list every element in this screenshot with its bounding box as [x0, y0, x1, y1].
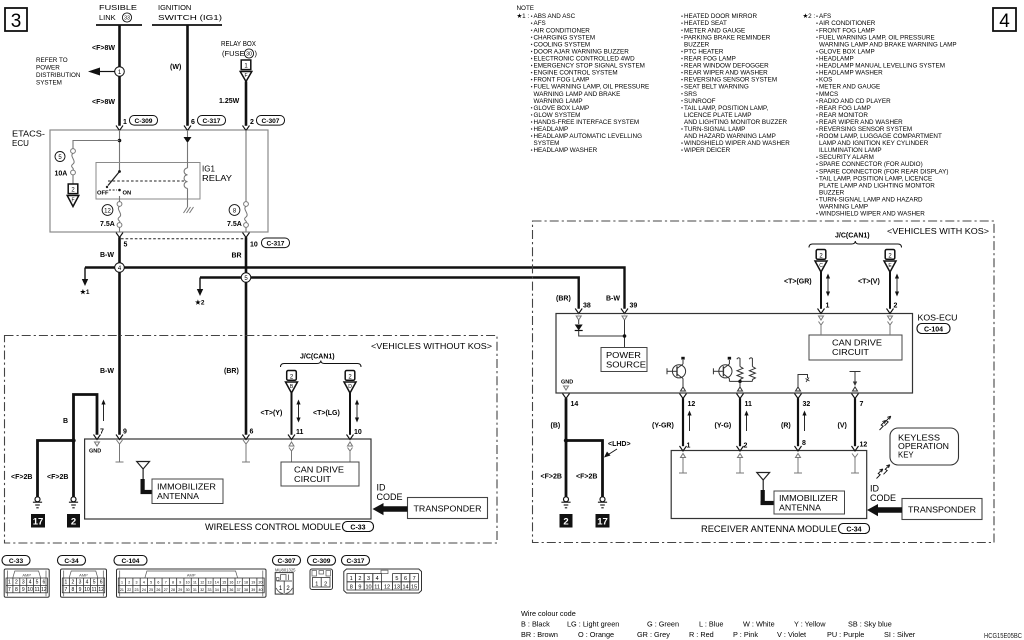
svg-text:WARNING LAMP: WARNING LAMP — [534, 98, 583, 105]
transponder box left — [408, 498, 488, 519]
pin 32 internal L symbol — [796, 375, 810, 392]
svg-text:MU801325: MU801325 — [275, 568, 296, 573]
ignition switch IG1 label — [152, 3, 223, 25]
pin 10 internal triangle and wire to CAN box — [348, 442, 353, 462]
svg-text:1: 1 — [64, 580, 67, 586]
CAN wire to pin 11 — [291, 393, 293, 435]
svg-text:CODE: CODE — [377, 492, 403, 502]
pin 1 internal triangle and wire — [819, 316, 824, 335]
ETACS-ECU box — [50, 130, 268, 232]
long wire node5 to KOS pin 38 — [200, 278, 579, 309]
svg-text:5: 5 — [395, 576, 398, 582]
note list column 1 — [531, 13, 649, 154]
pin chevron ETACS bottom pin 10 — [243, 233, 250, 238]
wire B from KOS pin 14 — [565, 398, 568, 497]
svg-text:33: 33 — [207, 588, 211, 592]
ground ref 17 black box kos — [596, 514, 610, 528]
svg-text:AMP: AMP — [187, 572, 196, 577]
svg-text:29: 29 — [178, 588, 182, 592]
svg-text:6: 6 — [43, 580, 46, 586]
svg-text:F: F — [71, 197, 74, 203]
connector pinout C-104 label — [114, 556, 147, 566]
svg-text:13: 13 — [207, 581, 211, 585]
svg-text:AIR CONDITIONER: AIR CONDITIONER — [819, 20, 876, 27]
connector pinout C-34 label — [58, 556, 86, 566]
svg-text:C-33: C-33 — [350, 525, 365, 532]
svg-text:2: 2 — [358, 576, 361, 582]
svg-text:HEADLAMP: HEADLAMP — [819, 56, 854, 63]
svg-text:4: 4 — [143, 581, 145, 585]
wire pin39 to power source — [624, 320, 626, 348]
svg-text:B-W: B-W — [100, 252, 114, 259]
svg-text:11: 11 — [296, 429, 304, 436]
svg-text:FUSIBLE: FUSIBLE — [99, 3, 137, 12]
connector pinout C-104 body — [117, 569, 267, 597]
svg-text:35: 35 — [222, 588, 226, 592]
wire Y-G pin11 to receiver pin2 — [739, 398, 741, 446]
svg-text:PU : Purple: PU : Purple — [827, 630, 864, 639]
svg-text:2: 2 — [744, 443, 748, 450]
svg-text:1.25W: 1.25W — [219, 98, 240, 105]
svg-text:AIR CONDITIONER: AIR CONDITIONER — [534, 27, 591, 34]
CAN drive circuit box right — [809, 335, 902, 360]
pin chevron KOS bottom 11 — [737, 394, 744, 399]
wire branch to fuse 5 — [73, 141, 120, 149]
svg-text:10: 10 — [27, 587, 33, 593]
ID code big arrow left — [373, 503, 408, 515]
svg-text:AFS: AFS — [534, 20, 546, 27]
svg-text:12: 12 — [98, 587, 104, 593]
ground ref 2 black box — [67, 514, 80, 528]
svg-text:2: 2 — [71, 188, 75, 194]
svg-text:BUZZER: BUZZER — [819, 189, 845, 196]
wire V pin7 to receiver pin12 — [854, 398, 856, 446]
CAN wire to KOS pin 2 — [889, 272, 891, 309]
KOS-ECU box — [556, 314, 913, 394]
svg-text:C-317: C-317 — [347, 558, 365, 565]
ground ref 2 black box kos — [560, 514, 573, 528]
relay box (fuse 30) label — [221, 39, 258, 58]
svg-text:★2 :: ★2 : — [803, 13, 816, 20]
up arrow beside Y-GR wire — [687, 411, 691, 432]
ID code big arrow right — [867, 504, 902, 516]
chassis ground hatch — [184, 207, 194, 213]
svg-text:5: 5 — [150, 581, 152, 585]
svg-text:6: 6 — [191, 119, 195, 126]
wire BR from ETACS pin10 down to module pin 6 — [245, 237, 248, 434]
junction dot pin1 branch — [118, 139, 122, 143]
svg-text:KEY: KEY — [898, 451, 914, 460]
svg-text:4: 4 — [29, 580, 32, 586]
svg-text:IMMOBILIZER: IMMOBILIZER — [779, 494, 838, 503]
circled 8 — [229, 205, 240, 216]
up arrow beside Y-G wire — [744, 411, 748, 432]
node 4 circle — [115, 263, 125, 273]
svg-text:(W): (W) — [170, 64, 181, 71]
pin chevron at ETACS pin 6 — [184, 126, 191, 131]
svg-text:GR : Grey: GR : Grey — [637, 630, 670, 639]
svg-text:36: 36 — [229, 588, 233, 592]
wire diode to junction — [579, 331, 625, 337]
svg-text:ETACS-: ETACS- — [12, 130, 45, 139]
node 1 circle on fusible wire — [115, 67, 125, 77]
pin chevron module pin 11 — [288, 435, 295, 440]
circled 5 — [55, 152, 65, 162]
double arrow beside KOS pin2 wire — [895, 274, 899, 297]
svg-text:(BR): (BR) — [224, 368, 239, 375]
receiver antenna module label — [701, 524, 870, 535]
junction dot on B wire — [71, 438, 75, 442]
pin 6 internal stub — [242, 440, 250, 462]
connector label 2 C-307 — [250, 116, 285, 127]
ground ref 17 black box — [31, 514, 45, 528]
svg-text:O : Orange: O : Orange — [578, 630, 614, 639]
svg-text:17: 17 — [597, 517, 608, 528]
IG1 relay box — [96, 163, 200, 200]
pin chevron KOS bottom 7 — [852, 394, 859, 399]
svg-text:HEADLAMP WASHER: HEADLAMP WASHER — [819, 70, 883, 77]
svg-text:NOTE: NOTE — [517, 5, 535, 12]
fusible link 33 label — [96, 3, 142, 25]
connector label 6 C-317 — [191, 116, 226, 127]
svg-text:POWER: POWER — [606, 351, 641, 360]
svg-text:C: C — [819, 263, 823, 269]
svg-text:(V): (V) — [838, 423, 847, 430]
wire coil to chassis ground — [187, 188, 189, 207]
svg-text:8: 8 — [172, 581, 174, 585]
svg-text:(BR): (BR) — [556, 296, 571, 303]
svg-text:ENGINE CONTROL SYSTEM: ENGINE CONTROL SYSTEM — [534, 70, 618, 77]
immobilizer antenna box left — [152, 479, 223, 504]
svg-text:RELAY: RELAY — [202, 174, 233, 183]
svg-text:38: 38 — [244, 588, 248, 592]
pin chevron KOS bottom 14 — [563, 394, 570, 399]
vehicles with KOS dash-dot box — [533, 221, 995, 543]
svg-text:SWITCH (IG1): SWITCH (IG1) — [158, 13, 223, 22]
fuse 12 symbol — [117, 196, 122, 232]
long wire node4 to KOS pin 39 — [85, 268, 625, 309]
wire R pin32 to receiver pin8 — [797, 398, 799, 446]
svg-text:9: 9 — [123, 429, 127, 436]
pin chevron KOS bottom 12 — [680, 394, 687, 399]
wire relay box vertical — [245, 82, 248, 126]
svg-text:10: 10 — [365, 584, 371, 590]
sheet ref symbol 2F ground — [67, 184, 79, 207]
relay switch arm — [106, 170, 121, 188]
GND pin triangle KOS — [561, 380, 573, 391]
svg-text:26: 26 — [156, 588, 160, 592]
svg-text:11: 11 — [193, 581, 197, 585]
svg-text:TRANSPONDER: TRANSPONDER — [414, 504, 482, 514]
relay coil — [184, 168, 187, 188]
svg-text:37: 37 — [237, 588, 241, 592]
svg-text:R : Red: R : Red — [689, 630, 714, 639]
IG1 relay label — [202, 165, 233, 184]
connector pinout C-317 label — [342, 556, 370, 566]
pin chevron module pin 7 — [94, 435, 101, 440]
svg-text:1: 1 — [121, 581, 123, 585]
wire inside ETACS from pin1 down to switch — [119, 130, 121, 172]
svg-text:6: 6 — [100, 580, 103, 586]
svg-text:B-W: B-W — [606, 296, 620, 303]
pin chevron receiver pin 2 — [737, 446, 744, 451]
svg-text:J/C(CAN1): J/C(CAN1) — [835, 233, 870, 240]
radio wave arrows upper — [880, 416, 891, 430]
svg-text:PARKING BRAKE REMINDER: PARKING BRAKE REMINDER — [684, 34, 771, 41]
svg-text:16: 16 — [229, 581, 233, 585]
svg-text:39: 39 — [630, 303, 638, 310]
svg-text:HEADLAMP WASHER: HEADLAMP WASHER — [534, 147, 598, 154]
pin chevron receiver pin 12 — [852, 446, 859, 451]
pin chevron KOS pin 38 — [575, 309, 582, 314]
svg-text:7: 7 — [8, 587, 11, 593]
svg-text:CIRCUIT: CIRCUIT — [294, 474, 331, 484]
pin chevron module pin 10 — [347, 435, 354, 440]
note list column 3 — [816, 13, 956, 217]
ground symbol right — [69, 497, 78, 508]
svg-text:(Y-GR): (Y-GR) — [652, 423, 674, 430]
dashed tie line between pins 5 and 10 — [121, 238, 244, 240]
svg-text:(R): (R) — [781, 423, 791, 430]
svg-text:V : Violet: V : Violet — [777, 630, 806, 639]
svg-text:10: 10 — [250, 242, 258, 249]
svg-text:9: 9 — [22, 587, 25, 593]
svg-text:REAR WIPER AND WASHER: REAR WIPER AND WASHER — [819, 119, 903, 126]
svg-text:AND LIGHTING MONITOR BUZZER: AND LIGHTING MONITOR BUZZER — [684, 119, 788, 126]
svg-text:REVERSING SENSOR SYSTEM: REVERSING SENSOR SYSTEM — [684, 77, 777, 84]
svg-text:ID: ID — [870, 484, 880, 494]
svg-text:24: 24 — [142, 588, 146, 592]
svg-text:6: 6 — [157, 581, 159, 585]
svg-text:25: 25 — [149, 588, 153, 592]
svg-text:COOLING SYSTEM: COOLING SYSTEM — [534, 41, 591, 48]
radio wave arrows lower — [877, 465, 890, 479]
svg-text:28: 28 — [171, 588, 175, 592]
transistor Q2 — [713, 357, 732, 382]
svg-text:1: 1 — [8, 580, 11, 586]
fuse 5 symbol — [71, 149, 76, 184]
svg-text:12: 12 — [104, 208, 111, 214]
svg-text:20: 20 — [259, 581, 263, 585]
svg-text:17: 17 — [33, 517, 44, 528]
wireless control module label — [205, 522, 374, 533]
svg-text:<F>8W: <F>8W — [92, 45, 115, 52]
svg-text:REAR FOG LAMP: REAR FOG LAMP — [819, 105, 871, 112]
connector pinout C-33 label — [2, 556, 30, 566]
svg-text:ILLUMINATION LAMP: ILLUMINATION LAMP — [819, 147, 882, 154]
svg-text:IMMOBILIZER: IMMOBILIZER — [157, 483, 216, 492]
ID CODE label left — [377, 483, 403, 503]
pin 7 internal T symbol — [850, 372, 861, 392]
connector pinout C-33 body — [4, 569, 49, 597]
pin 11 internal triangle and wire to CAN box — [289, 442, 294, 462]
svg-text:10A: 10A — [55, 171, 68, 178]
svg-text:15: 15 — [411, 584, 417, 590]
immobilizer antenna symbol left — [137, 462, 152, 495]
svg-text:TAIL LAMP, POSITION LAMP, LICE: TAIL LAMP, POSITION LAMP, LICENCE — [819, 175, 932, 182]
svg-text:(Y-G): (Y-G) — [715, 423, 732, 430]
svg-text:J/C(CAN1): J/C(CAN1) — [300, 354, 335, 361]
svg-text:8: 8 — [350, 584, 353, 590]
svg-text:WINDSHIELD WIPER AND WASHER: WINDSHIELD WIPER AND WASHER — [819, 211, 925, 218]
relay switch OFF ON labels and contacts — [97, 189, 131, 197]
KOS-ECU label — [917, 314, 958, 334]
svg-text:FRONT FOG LAMP: FRONT FOG LAMP — [534, 77, 590, 84]
wire ignition switch vertical — [186, 25, 189, 126]
svg-text:5: 5 — [58, 155, 62, 161]
svg-text:1: 1 — [279, 586, 283, 592]
svg-text:FRONT FOG LAMP: FRONT FOG LAMP — [819, 27, 875, 34]
note list column 2 — [681, 13, 790, 154]
svg-text:HEADLAMP MANUAL LEVELLING SYST: HEADLAMP MANUAL LEVELLING SYSTEM — [819, 63, 945, 70]
svg-text:TRANSPONDER: TRANSPONDER — [908, 505, 976, 515]
svg-text:2: 2 — [324, 581, 327, 587]
svg-text:F: F — [244, 73, 247, 79]
svg-text:2: 2 — [15, 580, 18, 586]
svg-text:3: 3 — [136, 581, 138, 585]
svg-text:<VEHICLES WITH KOS>: <VEHICLES WITH KOS> — [887, 227, 989, 236]
ground symbol kos left — [561, 497, 570, 508]
pin chevron KOS pin 39 — [621, 309, 628, 314]
svg-text:IGNITION: IGNITION — [158, 3, 191, 12]
wire pin6 to coil — [187, 143, 189, 168]
svg-text:2: 2 — [290, 374, 294, 380]
resistor R1 — [737, 358, 743, 382]
svg-text:7: 7 — [413, 576, 416, 582]
svg-text:HEATED DOOR MIRROR: HEATED DOOR MIRROR — [684, 13, 757, 20]
svg-text:<F>2B: <F>2B — [541, 474, 562, 481]
svg-text:C-309: C-309 — [313, 558, 331, 565]
svg-text:C-309: C-309 — [135, 118, 153, 125]
transistor Q1 — [667, 357, 686, 391]
svg-text:LINK: LINK — [99, 13, 116, 22]
star2 branch arrow — [195, 278, 205, 307]
svg-text:ELECTRONIC CONTROLLED 4WD: ELECTRONIC CONTROLLED 4WD — [534, 56, 636, 63]
svg-text:31: 31 — [193, 588, 197, 592]
svg-text:TAIL LAMP, POSITION LAMP,: TAIL LAMP, POSITION LAMP, — [684, 105, 768, 112]
svg-text:(FUSE: (FUSE — [222, 49, 245, 58]
svg-text:FUEL WARNING LAMP, OIL PRESSUR: FUEL WARNING LAMP, OIL PRESSURE — [534, 84, 650, 91]
svg-text:PTC HEATER: PTC HEATER — [684, 49, 724, 56]
wire B from pin 7 up and left to grounds — [74, 395, 98, 497]
CAN drive circuit box left — [281, 462, 359, 486]
svg-text:WARNING LAMP AND BRAKE WARNING: WARNING LAMP AND BRAKE WARNING LAMP — [819, 41, 957, 48]
svg-text:LICENCE PLATE LAMP: LICENCE PLATE LAMP — [684, 112, 751, 119]
fuse 8 symbol — [244, 202, 249, 232]
sheet ref 2D junction left CAN — [344, 371, 356, 394]
svg-text:39: 39 — [251, 588, 255, 592]
svg-text:LAMP AND IGNITION KEY CYLINDER: LAMP AND IGNITION KEY CYLINDER — [819, 140, 929, 147]
pin chevron KOS pin 2 — [887, 309, 894, 314]
svg-text:1: 1 — [350, 576, 353, 582]
svg-text:KOS: KOS — [819, 77, 832, 84]
svg-text:W : White: W : White — [743, 620, 775, 629]
svg-text:19: 19 — [251, 581, 255, 585]
svg-text:FUEL WARNING LAMP, OIL PRESSUR: FUEL WARNING LAMP, OIL PRESSURE — [819, 34, 935, 41]
svg-text:21: 21 — [120, 588, 124, 592]
svg-text:HEADLAMP: HEADLAMP — [534, 126, 569, 133]
svg-text:CHARGING SYSTEM: CHARGING SYSTEM — [534, 34, 596, 41]
ground symbol left — [33, 497, 42, 508]
svg-text:REFER TO: REFER TO — [36, 57, 68, 64]
svg-text:ID: ID — [377, 483, 387, 493]
svg-text:WIRELESS CONTROL MODULE: WIRELESS CONTROL MODULE — [205, 522, 341, 532]
svg-text:30: 30 — [186, 588, 190, 592]
svg-text:DISTRIBUTION: DISTRIBUTION — [36, 72, 81, 79]
pin chevron KOS bottom 32 — [795, 394, 802, 399]
pin label 10 C-317 — [250, 238, 290, 249]
double arrow beside pin11 wire — [296, 400, 300, 423]
sheet ref 2E junction right CAN — [884, 250, 896, 273]
svg-text:BR: BR — [232, 253, 242, 260]
svg-text:LG : Light green: LG : Light green — [567, 620, 619, 629]
svg-text:7: 7 — [100, 429, 104, 436]
svg-text:12: 12 — [200, 581, 204, 585]
svg-text:5: 5 — [93, 580, 96, 586]
svg-text:32: 32 — [200, 588, 204, 592]
svg-text:OFF: OFF — [97, 191, 109, 197]
svg-text:TURN-SIGNAL LAMP AND HAZARD: TURN-SIGNAL LAMP AND HAZARD — [819, 197, 923, 204]
svg-text:C-104: C-104 — [924, 327, 943, 334]
svg-text:D: D — [348, 384, 352, 390]
svg-text:SPARE CONNECTOR (FOR AUDIO): SPARE CONNECTOR (FOR AUDIO) — [819, 161, 923, 168]
svg-text:8: 8 — [15, 587, 18, 593]
svg-text:30: 30 — [246, 52, 252, 58]
svg-text:3: 3 — [11, 11, 22, 32]
svg-text:14: 14 — [215, 581, 219, 585]
pin chevron module pin 9 — [116, 435, 123, 440]
svg-text:ECU: ECU — [12, 139, 29, 148]
ID CODE label right — [870, 484, 896, 504]
wire pin2 inside ETACS — [245, 130, 247, 202]
svg-text:2: 2 — [563, 517, 568, 528]
svg-text:B-W: B-W — [100, 368, 114, 375]
svg-text:GLOVE BOX LAMP: GLOVE BOX LAMP — [534, 105, 590, 112]
svg-text:C-317: C-317 — [267, 241, 285, 248]
immobilizer antenna symbol right — [757, 473, 774, 506]
wire B branch to left ground — [38, 441, 74, 497]
svg-text:SYSTEM: SYSTEM — [534, 140, 560, 147]
svg-text:27: 27 — [164, 588, 168, 592]
svg-text:PLATE LAMP AND LIGHTING MONITO: PLATE LAMP AND LIGHTING MONITOR — [819, 182, 935, 189]
GND pin triangle inside module — [89, 442, 101, 455]
svg-text:B: B — [63, 418, 68, 425]
svg-text:WARNING LAMP: WARNING LAMP — [819, 204, 868, 211]
svg-text:REAR MONITOR: REAR MONITOR — [819, 112, 868, 119]
pin 8 internal stub receiver — [794, 454, 802, 474]
svg-text:2: 2 — [71, 517, 76, 528]
svg-text:10: 10 — [186, 581, 190, 585]
sheet ref 2C junction right CAN — [815, 250, 827, 273]
up arrow beside R wire — [802, 411, 806, 432]
pin 12 internal stub receiver — [851, 454, 859, 474]
connector pinout C-309 label — [308, 556, 336, 566]
pin chevron receiver pin 1 — [680, 446, 687, 451]
svg-text:3: 3 — [367, 576, 370, 582]
svg-text:AND HAZARD WARNING LAMP: AND HAZARD WARNING LAMP — [684, 133, 776, 140]
svg-text:★1: ★1 — [80, 288, 90, 296]
svg-text:CIRCUIT: CIRCUIT — [832, 347, 869, 357]
svg-text:BUZZER: BUZZER — [684, 41, 710, 48]
svg-text:<LHD>: <LHD> — [608, 441, 631, 448]
svg-text:4: 4 — [999, 11, 1010, 32]
connector pinout C-317 body — [344, 569, 422, 593]
svg-text:P : Pink: P : Pink — [733, 630, 758, 639]
immobilizer antenna box right — [774, 491, 845, 514]
svg-text:ON: ON — [123, 191, 132, 197]
pin 38 internal triangle — [576, 316, 581, 320]
svg-text:AMP: AMP — [22, 572, 31, 577]
